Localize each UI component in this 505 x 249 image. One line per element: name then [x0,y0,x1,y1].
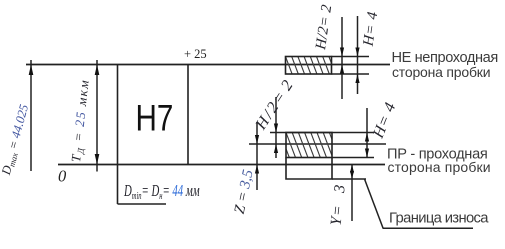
arrow H upper [355,48,359,57]
+25 upper deviation line [26,64,390,66]
dimension H (NOT-GO) line [357,16,359,94]
arrow H GO upper [365,133,369,142]
svg-text:сторона пробки: сторона пробки [392,64,490,80]
arrow H/2 GO upper [274,124,278,133]
dimension H/2 (NOT-GO) line [341,17,343,99]
arrow D_max top [29,65,34,76]
dimension H/2 (GO) line [275,97,277,158]
NOT-GO bottom extension line [332,73,370,75]
arrow H GO lower [365,149,369,158]
arrow H/2 lower [340,65,344,74]
GO gauge bottom extension line [332,157,374,159]
arrow H/2 upper [340,48,344,57]
svg-text:+ 25: + 25 [184,47,207,61]
wear zone rect [286,158,332,180]
svg-text:Граница износа: Граница износа [389,211,489,227]
dimension Y line [351,165,353,222]
svg-text:H7: H7 [136,98,174,139]
arrow H lower [355,74,359,83]
GO gauge hatched rect [274,133,346,158]
arrow T_D bottom [95,154,100,165]
dimension T_D line [96,60,98,172]
wear limit extension line [332,178,366,180]
dimension Z line [256,122,258,190]
arrow Y lower [350,171,354,179]
NOT-GO top extension line [332,56,370,58]
arrow H/2 GO lower [274,144,278,153]
leader shelf under Dmin text [118,203,167,205]
GO gauge top extension line [270,132,374,134]
H7 field left edge + leader vertical [117,65,119,205]
wear leader shelf [383,227,474,229]
NOT-GO gauge hatched rect [273,57,342,75]
H7 field right edge [187,65,189,165]
svg-text:0: 0 [58,167,67,186]
svg-text:сторона пробки: сторона пробки [388,159,491,175]
arrow T_D top [95,65,100,76]
arrow Z upper [255,135,259,144]
wear leader diagonal [365,179,384,228]
dimension D_max line [30,60,32,171]
arrow Y upper [350,165,354,173]
dimension H (GO) line [366,108,368,158]
arrow Z lower [255,165,259,174]
GO gauge rect border [286,133,332,158]
NOT-GO gauge rect border [286,57,332,75]
zero line [58,164,385,166]
GO gauge line (PR) [249,143,386,145]
